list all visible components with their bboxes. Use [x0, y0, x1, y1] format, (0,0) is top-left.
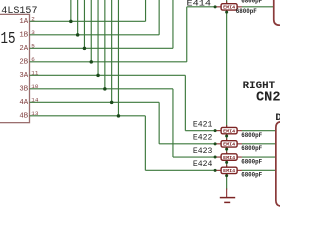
svg-text:EMI4: EMI4	[223, 168, 235, 174]
junction dot left of E424	[214, 169, 217, 172]
svg-text:EMI4: EMI4	[223, 5, 235, 11]
wire up from 1B corner to top edge	[158, 0, 160, 35]
svg-text:E423: E423	[193, 148, 213, 156]
junction dot left of E421	[214, 129, 217, 132]
svg-text:6800pF: 6800pF	[241, 0, 262, 5]
svg-text:E421: E421	[193, 121, 213, 129]
junction dot left of E414	[214, 5, 217, 8]
vertical wire from top edge down to 1B	[77, 0, 79, 35]
svg-text:EMI4: EMI4	[223, 142, 235, 148]
wire row 4A	[30, 101, 160, 103]
svg-text:EMI4: EMI4	[223, 128, 235, 134]
wire row 3A	[30, 74, 186, 76]
IC U15 74LS157 body	[0, 14, 30, 122]
svg-text:6800pF: 6800pF	[241, 145, 262, 152]
EMI filter E421 pin stubs	[215, 130, 222, 132]
wire E414 row horizontal	[187, 6, 215, 8]
junction dot left of E422	[214, 142, 217, 145]
svg-text:E422: E422	[193, 135, 213, 143]
wire row 3B	[30, 88, 173, 90]
EMI filter E423 pin stubs	[215, 156, 222, 158]
EMI filter E414 body	[221, 4, 237, 10]
vertical wire from top edge down to 4A	[111, 0, 113, 102]
junction dot 3A	[96, 74, 100, 78]
wire down from 3B to E423	[172, 89, 174, 157]
wire row 2A	[30, 47, 173, 49]
svg-text:2B: 2B	[19, 59, 28, 67]
svg-text:D: D	[275, 112, 280, 124]
svg-text:2A: 2A	[19, 45, 28, 53]
junction dot 1B	[76, 33, 80, 37]
junction dot left of E423	[214, 156, 217, 159]
svg-text:1A: 1A	[19, 18, 28, 26]
wire up from 2B corner to E414 row	[186, 7, 188, 62]
ground symbol pin stub	[226, 189, 228, 198]
svg-text:E414: E414	[187, 1, 212, 9]
wire row 4B	[30, 115, 146, 117]
svg-text:CN2: CN2	[256, 91, 280, 106]
wire down from 4B to E424	[144, 116, 146, 171]
junction dot 3B	[103, 87, 107, 91]
wire down from 4A to E422	[158, 102, 160, 144]
wire E421 to CN2	[242, 130, 276, 132]
connector CN2 outline	[276, 122, 281, 206]
wire row 1B	[30, 34, 160, 36]
wire E424 row horizontal	[145, 169, 215, 171]
junction dot below E424	[225, 174, 228, 177]
connector CN1 outline (bottom-left corner of upper connector)	[274, 0, 281, 25]
wire E424 to CN2	[242, 169, 276, 171]
wire E414 to CN1	[242, 6, 274, 8]
svg-text:6800pF: 6800pF	[241, 172, 262, 179]
vertical wire from top edge down to 2A	[83, 0, 85, 48]
wire up from 1A corner to top edge	[145, 0, 147, 21]
svg-text:4A: 4A	[19, 99, 28, 107]
wire E422 row horizontal	[159, 143, 215, 145]
svg-text:EMI4: EMI4	[223, 155, 235, 161]
wire E422 to CN2	[242, 143, 276, 145]
wire row 1A	[30, 20, 146, 22]
wire E423 to CN2	[242, 156, 276, 158]
wire E421 row horizontal	[185, 130, 215, 132]
svg-text:3B: 3B	[19, 86, 28, 94]
vertical wire from top edge down to 3B	[104, 0, 106, 89]
vertical wire from top edge down to 2B	[90, 0, 92, 62]
EMI filter E424 body	[221, 167, 237, 173]
EMI filter E423 body	[221, 154, 237, 160]
svg-text:U15: U15	[0, 29, 16, 48]
junction dot below E414	[225, 11, 228, 14]
vertical wire from top edge down to 4B	[117, 0, 119, 116]
svg-text:6800pF: 6800pF	[241, 158, 262, 165]
EMI filter E422 pin stubs	[215, 143, 222, 145]
EMI filter E414 pin stubs	[215, 6, 222, 8]
wire row 2B	[30, 61, 187, 63]
junction dot 4A	[110, 101, 114, 105]
EMI filter E422 body	[221, 141, 237, 147]
junction dot below E423	[225, 161, 228, 164]
wire down from 3A to E421	[184, 75, 186, 130]
EMI filter E424 pin stubs	[215, 169, 222, 171]
ground rail vertical wire	[226, 0, 228, 190]
junction dot 4B	[117, 114, 121, 118]
vertical wire from top edge down to 1A	[70, 0, 72, 21]
wire up from 2A corner to top edge	[172, 0, 174, 48]
ground	[220, 197, 235, 199]
vertical wire from top edge down to 3A	[97, 0, 99, 75]
svg-text:3A: 3A	[19, 72, 28, 80]
junction dot below E421	[225, 134, 228, 137]
junction dot 1A	[69, 20, 73, 24]
junction dot below E422	[225, 148, 228, 151]
svg-text:6800pF: 6800pF	[241, 132, 262, 139]
junction dot 2A	[83, 47, 87, 51]
svg-text:1B: 1B	[19, 32, 28, 40]
junction dot 2B	[90, 60, 94, 64]
EMI filter E421 body	[221, 127, 237, 133]
svg-text:E424: E424	[193, 161, 213, 169]
wire E423 row horizontal	[173, 156, 215, 158]
svg-text:6800pF: 6800pF	[236, 8, 257, 15]
svg-text:4B: 4B	[19, 113, 28, 121]
